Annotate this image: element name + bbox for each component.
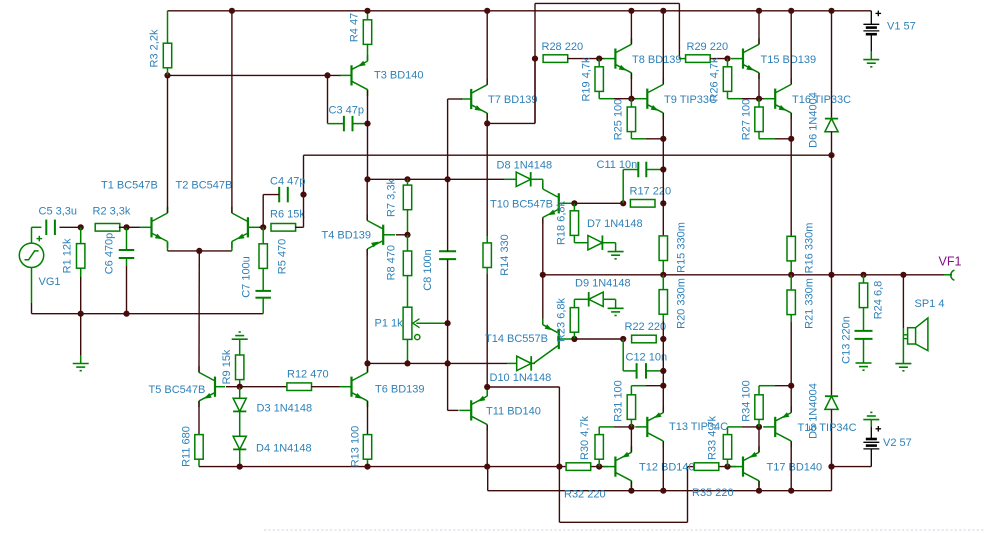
wire T2 collector (231, 11, 233, 213)
transistor T1 BC547B (101, 179, 168, 247)
lead R3 bottom (167, 68, 169, 76)
signal source VG1 (19, 227, 43, 303)
lead R23 top (574, 299, 588, 307)
lead R5 top (262, 227, 264, 244)
lead R18 top (573, 203, 575, 211)
junction C4 right (300, 192, 306, 198)
svg-text:R23 6,8k: R23 6,8k (555, 297, 567, 342)
label VF1 (939, 255, 962, 269)
junction output rail center (828, 272, 834, 278)
ground speaker (895, 364, 911, 371)
lead C12 right (646, 370, 663, 372)
svg-text:R19 4,7k: R19 4,7k (580, 57, 592, 102)
svg-text:R18 6,8k: R18 6,8k (555, 200, 567, 245)
junction D6 rail (828, 8, 834, 14)
lead C6 bottom (126, 258, 128, 266)
lead V2 ground (870, 420, 872, 427)
lead R30 top (599, 427, 614, 435)
label D10 (490, 372, 552, 384)
lead R8 bottom (407, 276, 409, 308)
resistor R6 15k (270, 208, 305, 231)
lead C6 top (126, 227, 128, 250)
wire D6 bottom lead (831, 132, 833, 156)
resistor R1 12k (61, 238, 85, 273)
wire T16 collector (790, 11, 792, 85)
wire R2 to C6 node (119, 226, 127, 228)
diode D8 1N4148 (516, 172, 531, 187)
wire mid rail (304, 154, 832, 156)
wire R33 bend to T18 base node (742, 426, 759, 428)
wire wiper node down (447, 323, 449, 363)
svg-text:R32 220: R32 220 (564, 488, 606, 500)
capacitor C12 10n (637, 363, 646, 379)
transistor T13 TIP34C (635, 406, 728, 447)
svg-text:T8 BD139: T8 BD139 (632, 54, 682, 66)
lead V1 ground (870, 51, 872, 60)
wire R34 bend to node (775, 385, 791, 387)
speaker SP1 4 (903, 318, 928, 364)
svg-text:T11 BD140: T11 BD140 (486, 405, 541, 417)
lead R34 top (759, 386, 775, 395)
wire T15 collector (758, 11, 760, 45)
transistor T16 TIP33C (763, 78, 851, 119)
junction R31 node (660, 383, 666, 389)
lead R31 top (631, 386, 646, 395)
wire T8 emitter down (630, 73, 632, 99)
wire D5 bottom lead (831, 409, 833, 466)
junction T9 collector rail (660, 8, 666, 14)
lead R23 bottom (573, 332, 575, 339)
wire T7 base vertical (447, 99, 449, 179)
svg-text:T14 BC557B: T14 BC557B (485, 333, 548, 345)
junction T8 collector rail (628, 8, 634, 14)
transistor T18 TIP34C (763, 406, 856, 447)
wire R1 bottom to rail (80, 277, 82, 314)
svg-text:V1 57: V1 57 (887, 20, 916, 32)
svg-text:C7 100u: C7 100u (240, 256, 252, 298)
wire T12 emitter up (630, 427, 632, 452)
transistor T6 BD139 (340, 366, 425, 407)
svg-text:C8 100n: C8 100n (422, 249, 434, 291)
wire T17 collector down (758, 481, 760, 491)
resistor R4 47 (348, 13, 371, 45)
lead P1 bottom (407, 339, 409, 363)
junction T6 collector (364, 360, 370, 366)
wire D6 top lead (831, 11, 833, 119)
junction T16 base node (756, 96, 762, 102)
svg-text:D9 1N4148: D9 1N4148 (575, 277, 631, 289)
lead R14 top (486, 236, 488, 243)
wire negative drive rail (488, 467, 872, 491)
wire T11 emitter node right (487, 386, 559, 388)
svg-text:R28 220: R28 220 (542, 41, 584, 53)
junction T11 collector (484, 464, 490, 470)
resistor R34 100 (740, 380, 763, 422)
svg-text:R34 100: R34 100 (740, 380, 752, 422)
junction T12 collector (628, 488, 634, 494)
junction C8 top (445, 176, 451, 182)
label C7 (240, 256, 252, 298)
svg-text:T7 BD139: T7 BD139 (488, 94, 538, 106)
svg-text:R9 15k: R9 15k (221, 349, 233, 384)
svg-text:T5 BC547B: T5 BC547B (149, 384, 206, 396)
junction R17 left (620, 200, 626, 206)
battery V1 (863, 11, 881, 51)
diode D4 1N4148 (233, 436, 246, 449)
resistor R28 220 (542, 41, 584, 62)
svg-text:C6 470p: C6 470p (103, 233, 115, 275)
svg-text:R11 680: R11 680 (180, 426, 192, 467)
junction C3 T3 collector (364, 121, 370, 127)
junction T5 base node (237, 384, 243, 390)
lead input ground stem (80, 356, 82, 364)
wire mid column (831, 155, 833, 275)
wire C8 bottom to wiper node (447, 259, 449, 323)
svg-text:D3 1N4148: D3 1N4148 (257, 402, 313, 414)
wire VG1 bottom (31, 303, 33, 314)
label V2 (883, 437, 912, 449)
wire T8 collector (630, 11, 632, 45)
label D5 (807, 383, 819, 439)
svg-text:R21 330m: R21 330m (803, 278, 815, 329)
lead R29 left (679, 58, 685, 60)
lead R24 top (863, 275, 865, 283)
label C6 (103, 233, 115, 275)
ground at D9 (608, 308, 624, 315)
capacitor C4 47p (279, 187, 288, 203)
svg-text:VG1: VG1 (39, 276, 61, 288)
transistor T8 BD139 (603, 38, 681, 79)
transistor T7 BD139 (461, 79, 537, 120)
wire T18 emitter up (790, 386, 792, 413)
junction C6 ground rail (123, 311, 129, 317)
wire T14 base node to R22 (574, 338, 623, 340)
svg-text:R7 3,3k: R7 3,3k (385, 179, 397, 217)
wire T15 emitter down (758, 73, 760, 99)
wire D7 cathode to ground (602, 243, 616, 252)
lead R30 bottom (598, 459, 600, 466)
wire T4 collector up (366, 179, 368, 220)
lead R33 bottom (727, 459, 729, 466)
terminal VF1 (944, 270, 954, 280)
label C13 (840, 316, 852, 364)
wire T1 collector (167, 75, 169, 213)
wire R28 to T8 base (568, 58, 600, 60)
junction T9 base node (628, 96, 634, 102)
resistor R12 470 (287, 369, 329, 391)
lead C7 bottom (262, 298, 264, 314)
lead T1 emitter (167, 242, 169, 251)
wire T3 collector to node (367, 124, 369, 180)
resistor R35 220 (692, 463, 734, 499)
wire R12 to T6 base (311, 386, 339, 388)
wire T10 emitter down (542, 218, 544, 275)
svg-text:R1 12k: R1 12k (61, 238, 73, 273)
diode D7 1N4148 (588, 235, 603, 250)
page border (264, 529, 985, 531)
capacitor C5 3,3u (46, 220, 55, 236)
label P1 (375, 317, 404, 329)
svg-text:R4 47: R4 47 (348, 13, 360, 42)
junction R4 rail (364, 8, 370, 14)
wire lower bias rail (199, 466, 567, 468)
junction R28 left (532, 56, 538, 62)
lead R5 bottom (262, 268, 264, 290)
svg-text:T2 BC547B: T2 BC547B (176, 179, 233, 191)
lead R16 bottom (790, 261, 792, 275)
svg-text:T4 BD139: T4 BD139 (322, 229, 372, 241)
junction output rail R15 (660, 272, 666, 278)
lead R33 top (728, 427, 743, 435)
junction T14 base (571, 336, 577, 342)
wire column C12 to R31 node (662, 339, 664, 386)
svg-text:R15 330m: R15 330m (675, 222, 687, 273)
resistor R30 4,7k (579, 415, 604, 460)
label C4 (270, 175, 305, 187)
svg-text:R22 220: R22 220 (625, 321, 667, 333)
wire R21 down to R34 node (790, 322, 792, 386)
lead R11 bottom (198, 459, 200, 466)
wire R26 bend to T16 base (742, 98, 764, 100)
wire positive supply rail (168, 10, 872, 12)
label VG1 (39, 276, 61, 288)
junction C12 right (660, 368, 666, 374)
wire T6 collector up (367, 363, 369, 372)
junction D4 rail (237, 464, 243, 470)
lead D10 anode (507, 362, 517, 364)
lead R1 bottom (80, 268, 82, 277)
capacitor C3 47p (344, 116, 353, 132)
junction R7 top (404, 176, 410, 182)
svg-text:R33 4,7k: R33 4,7k (706, 415, 718, 460)
lead R26 bottom (728, 91, 743, 98)
resistor R16 330m (787, 223, 815, 274)
junction VAS node (364, 176, 370, 182)
diode D5 1N4004 (825, 396, 838, 409)
potentiometer P1 1k (403, 307, 445, 340)
wire C6 node to T1 base (127, 226, 141, 228)
wire emitter column upper (662, 139, 664, 236)
resistor R31 100 (612, 380, 635, 422)
resistor R20 330m (659, 278, 687, 329)
label D3 (257, 402, 313, 414)
wire R25 bend to emitter node (646, 138, 663, 140)
junction T3 base / C3 (324, 72, 330, 78)
label C5 (39, 206, 78, 218)
svg-text:R13 100: R13 100 (349, 426, 361, 468)
resistor R26 4,7k (708, 57, 731, 102)
lead C13 bottom (863, 339, 865, 363)
junction P1 wiper (445, 320, 451, 326)
lead C3 left (328, 123, 344, 125)
svg-text:R27 100: R27 100 (740, 99, 752, 141)
wire R31 bend to node (646, 385, 663, 387)
wire T10 base node to R17 (574, 202, 623, 204)
lead R21 top (790, 275, 792, 290)
junction R2/C6 (123, 224, 129, 230)
svg-text:R31 100: R31 100 (612, 380, 624, 422)
wire T3 collector down (367, 90, 369, 124)
resistor R29 220 (686, 41, 728, 62)
diode D9 1N4148 (589, 292, 604, 307)
junction R33 bottom (724, 464, 730, 470)
junction T7 emitter (484, 120, 490, 126)
junction T7 collector rail (484, 8, 490, 14)
capacitor C6 470p (119, 250, 135, 258)
wire R19 bend to T9 base (614, 98, 636, 100)
label D9 (575, 277, 631, 289)
lead R4 bottom (367, 44, 369, 61)
lead D3-D4 (239, 412, 241, 436)
wire mid rail drop to C4 (303, 155, 305, 194)
diode D6 1N4004 (825, 119, 838, 132)
wire right emitter column upper (790, 139, 792, 236)
wire C4 left (263, 195, 279, 228)
label D8 (497, 159, 553, 171)
lead C11 right (646, 169, 663, 171)
transistor T11 BD140 (459, 390, 541, 431)
junction R19 top (596, 56, 602, 62)
junction T18 collector (788, 488, 794, 494)
lead R15 bottom (662, 261, 664, 275)
svg-text:D7 1N4148: D7 1N4148 (587, 218, 643, 230)
wire T9 emitter down (662, 113, 664, 139)
wire T7 emitter to upper loop (488, 3, 680, 123)
lead R1 top (80, 227, 82, 243)
svg-text:R5 470: R5 470 (276, 239, 288, 274)
lead R4 top (367, 11, 369, 20)
wire T5 emitter down (198, 401, 200, 435)
label C12 (626, 352, 668, 364)
lead R25 top (630, 99, 632, 107)
svg-text:D4 1N4148: D4 1N4148 (256, 443, 312, 455)
resistor R22 220 (625, 321, 667, 343)
resistor R8 470 (385, 245, 411, 280)
wire R1 node down to ground (80, 314, 82, 356)
wire speaker drop (902, 275, 904, 328)
wire T4 base wire (396, 234, 408, 236)
wire T14 emitter up (542, 275, 544, 325)
transistor T12 BD140 (603, 446, 694, 487)
junction T2 base (260, 224, 266, 230)
capacitor C8 100n (439, 251, 456, 259)
wire T7 collector (486, 11, 488, 85)
resistor R5 470 (259, 239, 288, 274)
svg-text:R6 15k: R6 15k (270, 208, 305, 220)
svg-text:D10 1N4148: D10 1N4148 (490, 372, 552, 384)
wire R35 to T17 (719, 466, 736, 468)
resistor R18 6,8k (555, 200, 578, 245)
lead R20 bottom (662, 314, 664, 321)
junction output rail R16 (788, 272, 794, 278)
svg-text:T15 BD139: T15 BD139 (761, 54, 817, 66)
lead R3 top (167, 11, 169, 43)
wire T7 emitter down (486, 113, 488, 123)
junction R22 right (660, 336, 666, 342)
lead C11 left (623, 170, 638, 204)
wire ground rail input (32, 313, 264, 315)
svg-text:R8 470: R8 470 (385, 245, 397, 280)
wire VAS node to C8 node (368, 178, 448, 180)
svg-text:C13 220n: C13 220n (840, 316, 852, 364)
junction T2 collector rail (229, 8, 235, 14)
diode D3 1N4148 (233, 398, 246, 411)
junction P1 bottom (404, 360, 410, 366)
label C3 (329, 104, 364, 116)
transistor T14 BC557B (485, 319, 574, 350)
junction T9 emitter (660, 136, 666, 142)
ground top left (232, 332, 248, 339)
svg-text:P1 1k: P1 1k (375, 317, 404, 329)
wire T17 emitter up (758, 427, 760, 452)
ground at D7 (608, 252, 624, 259)
wire T4 emitter down (366, 249, 368, 363)
wire to T11 base (448, 363, 459, 410)
lead R24 bottom (863, 308, 865, 331)
junction output rail left end (540, 272, 546, 278)
svg-text:V2 57: V2 57 (883, 437, 912, 449)
junction C11 right (660, 166, 666, 172)
wire T5 base to R12 (240, 386, 287, 388)
resistor R32 220 (564, 463, 606, 501)
junction R34 node (788, 383, 794, 389)
svg-text:T1 BC547B: T1 BC547B (101, 179, 158, 191)
wire R14 to T11 emitter (486, 274, 488, 396)
lead D4 bottom (239, 450, 241, 467)
svg-text:T6 BD139: T6 BD139 (375, 383, 425, 395)
lead R31 bottom (630, 419, 632, 427)
resistor R21 330m (787, 278, 815, 329)
transistor T3 BD140 (340, 55, 424, 96)
resistor R24 6,8 (859, 281, 884, 320)
svg-text:R35 220: R35 220 (692, 487, 734, 499)
svg-text:T17 BD140: T17 BD140 (767, 461, 823, 473)
label V1 (887, 20, 916, 32)
resistor R27 100 (740, 99, 763, 141)
lead C12 left (623, 339, 636, 371)
junction T16 emitter (788, 136, 794, 142)
wire bias line (368, 362, 449, 364)
wire T8 base wire (599, 58, 604, 60)
capacitor C11 10n (638, 162, 646, 178)
lead R21 bottom (790, 315, 792, 322)
ground V2 (863, 412, 879, 419)
wire D8 cathode to T10 collector (531, 179, 543, 189)
lead R13 bottom (367, 459, 369, 466)
wire T1 emitter to tail (168, 250, 232, 252)
wire T16 emitter down (790, 113, 792, 139)
svg-text:SP1 4: SP1 4 (915, 298, 945, 310)
wire T7 base drop (448, 98, 462, 100)
svg-text:R2 3,3k: R2 3,3k (93, 206, 131, 218)
resistor R33 4,7k (706, 415, 731, 460)
resistor R15 330m (659, 222, 687, 273)
svg-text:C3 47p: C3 47p (329, 104, 364, 116)
svg-text:R29 220: R29 220 (687, 41, 729, 53)
resistor R9 15k (221, 349, 244, 384)
ground below input (73, 364, 89, 371)
wire T11 collector down (486, 425, 488, 467)
lead T2 emitter (231, 242, 233, 251)
junction T11 emitter (484, 384, 490, 390)
junction T16 collector rail (788, 8, 794, 14)
junction R1 ground rail (78, 311, 84, 317)
lead R8 top (407, 235, 409, 251)
wire R6 right up (295, 195, 303, 228)
resistor R3 2,2k (148, 29, 171, 68)
wire R32 to R35 detour (559, 387, 695, 522)
junction T10 base (571, 200, 577, 206)
